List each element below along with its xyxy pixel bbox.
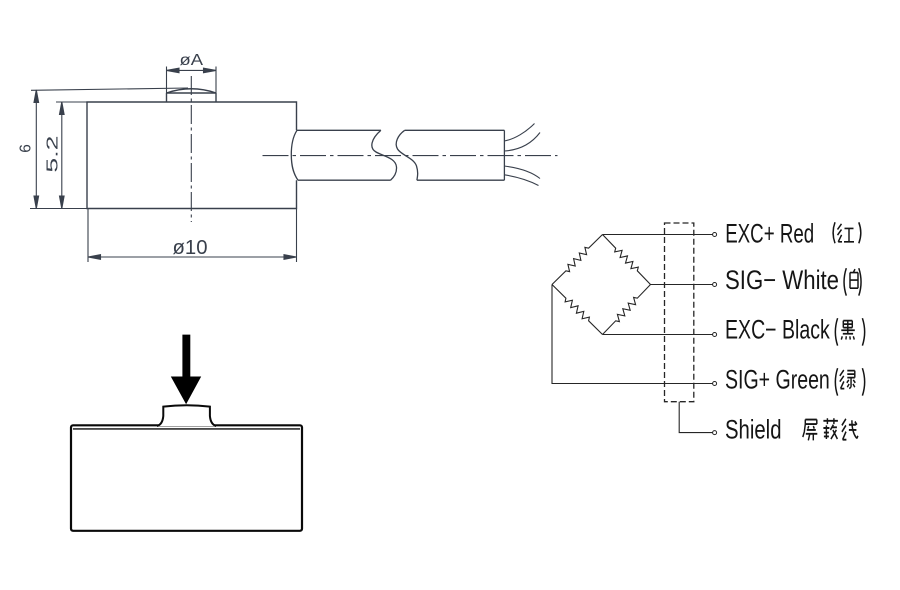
cable lead wires [504,124,540,186]
load button (side view) [167,89,217,102]
glyph bi (shield) [823,418,838,439]
label (red) parenthesis right [859,222,861,243]
dimension A line with arrowheads [167,68,217,73]
glyph hei (black) [841,321,855,340]
wire EXC- [603,334,713,336]
cable break symbol (segment 1 end) [372,130,397,180]
wire Shield [679,402,712,433]
svg-text:5.2: 5.2 [44,135,61,172]
svg-text:øA: øA [180,52,204,69]
svg-text:6: 6 [18,144,35,153]
label (white) parenthesis left [844,268,846,295]
load arrow (applied force) [171,335,201,405]
svg-text:EXC+ Red: EXC+ Red [725,219,814,249]
label (red) parenthesis left [833,222,835,243]
load button (front view) [157,405,216,426]
glyph lv (green) [840,370,856,389]
label (black) parenthesis right [862,318,864,345]
dimension A extension lines [167,67,217,94]
strain gauge R1 (left-top arm) [552,235,603,285]
label (green) parenthesis right [862,368,864,395]
terminal SIG+ [713,382,717,386]
cable segment 2 outline [405,130,505,180]
label (black) parenthesis left [835,318,837,345]
load cell body (front view) [71,425,302,531]
terminal SIG- [713,283,717,287]
svg-text:Shield: Shield [725,415,782,445]
cable break symbol (segment 2 start) [396,130,417,180]
svg-text:EXC− Black: EXC− Black [725,315,830,345]
glyph ping (screen) [803,420,818,441]
terminal EXC- [713,333,717,337]
glyph bai (white) [850,269,858,288]
wire SIG+ [552,285,713,384]
cable sheath boundary (dashed box) [665,223,694,402]
wire SIG- [651,284,713,286]
svg-text:SIG− White: SIG− White [725,265,839,295]
svg-text:SIG+ Green: SIG+ Green [725,365,830,395]
label (white) parenthesis right [859,268,861,295]
cable segment 1 outline [291,130,390,180]
strain gauge R2 (top-right arm) [603,235,651,285]
strain gauge R4 (bottom-right arm) [603,285,651,335]
svg-text:ø10: ø10 [173,237,208,259]
glyph xian (wire) [842,419,858,440]
dimension 6 extension line (bottom) [30,208,87,210]
cable centerline (horizontal dash-dot) [263,155,558,157]
label (green) parenthesis left [835,368,837,395]
center axis (vertical dash-dot) [190,76,192,222]
dimension 6 extension line (top) [31,88,188,90]
terminal EXC+ [713,233,717,237]
dimension 10 extension lines [88,209,297,263]
strain gauge R3 (left-bottom arm) [552,285,603,335]
terminal Shield [713,431,717,435]
glyph hong (red) [838,224,855,242]
dimension 10 line with arrowheads [88,255,297,260]
dimension 6 line with arrowheads [34,90,39,209]
load cell body (side view) [87,102,297,209]
dimension 5.2 extension line (top) [56,101,87,103]
wire EXC+ [603,234,713,236]
dimension 5.2 line with arrowheads [60,102,65,209]
